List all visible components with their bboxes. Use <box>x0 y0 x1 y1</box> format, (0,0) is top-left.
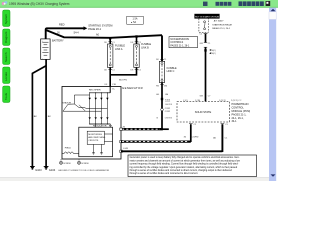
battery label <box>52 39 64 43</box>
rectifier top bus <box>89 87 110 94</box>
regulator box <box>79 127 113 157</box>
solid state top pin labels <box>183 100 241 102</box>
wire battery to fusible link bus <box>47 30 163 38</box>
svg-text:System: System <box>4 13 8 24</box>
svg-text:OG R B: OG R B <box>165 104 173 106</box>
svg-text:C1B: C1B <box>112 84 117 86</box>
fusible link C pin labels top <box>156 59 167 61</box>
fusible link C label <box>167 67 177 73</box>
app logo <box>2 1 8 6</box>
non emissions controls box <box>169 37 198 48</box>
left sidebar tab 5 <box>3 86 10 103</box>
ground wire labels <box>34 116 51 118</box>
svg-text:C3/92: C3/92 <box>165 108 171 110</box>
ground G104 <box>44 166 56 171</box>
fusible link B label <box>141 43 151 49</box>
svg-text:LINK B: LINK B <box>141 46 149 49</box>
svg-text:CIRCUITS: CIRCUITS <box>88 140 98 142</box>
wire labels along fusible link C feed <box>156 94 172 106</box>
description note box <box>128 155 257 177</box>
scrollbar track <box>269 8 276 181</box>
svg-text:GM: GM <box>165 94 169 96</box>
svg-text:1 (3C 2): 1 (3C 2) <box>219 100 226 102</box>
bus labels <box>57 32 100 37</box>
svg-text:1 C80: 1 C80 <box>195 100 200 102</box>
svg-text:SOLID STATE: SOLID STATE <box>195 110 212 114</box>
scrollbar thumb <box>269 12 276 20</box>
stator winding <box>63 95 107 111</box>
wire label BLK/PN <box>119 80 127 82</box>
bottom edge strip <box>0 178 269 181</box>
diode column 4 <box>106 93 108 124</box>
wire label RED <box>59 23 65 27</box>
svg-text:Tools: Tools <box>4 92 8 100</box>
regulator inner circuits box <box>87 131 105 144</box>
rectifier bottom bus <box>89 123 110 124</box>
svg-text:S(C): S(C) <box>212 53 216 55</box>
rectifier label <box>89 90 101 92</box>
svg-text:34-1: 34-1 <box>232 120 238 123</box>
label starting system page <box>88 24 112 32</box>
rectifier ground <box>109 124 112 127</box>
fusible link A pin labels top <box>104 42 115 44</box>
fuse panel bottom connector <box>199 34 207 36</box>
svg-text:LINK C: LINK C <box>167 70 175 73</box>
title bar <box>0 0 278 8</box>
svg-text:C (C): C (C) <box>183 100 188 102</box>
svg-text:A/T 30A Y: A/T 30A Y <box>214 20 224 23</box>
generator label <box>122 86 143 90</box>
stator label <box>62 102 71 105</box>
striped wire label <box>123 127 126 129</box>
svg-text:PAGE 20-1: PAGE 20-1 <box>88 27 101 31</box>
fusible link A connector ticks <box>108 42 112 70</box>
regulator label <box>93 124 107 127</box>
field winding <box>62 152 79 154</box>
inline connector on ignition feed <box>200 43 212 48</box>
wire F labels <box>123 137 228 150</box>
solid state module dashed box <box>177 102 230 123</box>
wire ignition feed down <box>205 34 207 102</box>
diode column 1 <box>89 93 91 124</box>
fusible link C pin labels bottom <box>156 85 167 87</box>
svg-text:SCREW: SCREW <box>81 163 89 165</box>
fusible link A label <box>115 45 125 51</box>
fusible link B <box>134 44 139 67</box>
svg-text:G103: G103 <box>35 168 42 172</box>
fuse panel dashed box <box>199 19 209 33</box>
solid state bottom connectors <box>189 123 229 126</box>
svg-text:RECTIFIER: RECTIFIER <box>89 90 101 92</box>
svg-text:Diagram: Diagram <box>4 31 8 43</box>
svg-text:current frequency through fiel: current frequency through field winding.… <box>130 163 239 166</box>
svg-text:● 5A: ● 5A <box>131 21 136 24</box>
fusible link C <box>159 61 164 82</box>
svg-text:HG: HG <box>156 94 159 96</box>
svg-text:G104: G104 <box>49 168 56 172</box>
svg-text:GROUND P SCREW TO FULL FIELD G: GROUND P SCREW TO FULL FIELD GENERATOR <box>58 169 109 172</box>
svg-text:CONTROLS: CONTROLS <box>170 42 183 44</box>
striped wire I-circuit to solid state <box>121 124 191 142</box>
wire fusible link C down <box>161 82 163 129</box>
screw ground 1 <box>60 159 71 165</box>
svg-text:HOT IN START OR RUN: HOT IN START OR RUN <box>195 15 220 18</box>
fuse legend box <box>127 16 143 24</box>
svg-text:MONITORING: MONITORING <box>88 134 102 136</box>
wire battery negative split <box>32 59 46 166</box>
svg-text:Locate: Locate <box>4 72 8 81</box>
wire fusible link B join to A <box>110 67 136 74</box>
left sidebar tab 1 <box>3 10 10 27</box>
svg-text:AND SWITCHING: AND SWITCHING <box>88 136 105 139</box>
fusible link B pin labels top <box>131 42 142 44</box>
fusible link B wire top <box>136 37 138 44</box>
svg-text:LG/R: LG/R <box>123 148 129 150</box>
wire battery positive to starting system (top bus) <box>46 26 88 39</box>
generator B+ pin labels <box>105 84 117 90</box>
svg-text:LG/RD: LG/RD <box>192 137 199 139</box>
svg-text:GM: GM <box>164 85 168 87</box>
splice on ignition feed <box>204 49 216 55</box>
fusible link C connector ticks <box>160 59 164 84</box>
svg-text:erator creates and channels an: erator creates and channels an amount of… <box>130 159 241 162</box>
scrollbar up arrow <box>271 9 276 11</box>
svg-text:PAGES 21-1, 24-1: PAGES 21-1, 24-1 <box>212 27 231 30</box>
ignition feed lower labels <box>200 96 212 98</box>
fuse panel side labels <box>212 20 232 31</box>
svg-text:OG R B: OG R B <box>165 117 173 119</box>
svg-text:S100: S100 <box>165 99 171 101</box>
generator terminal A <box>120 128 122 130</box>
hot in start or run header <box>194 14 219 19</box>
svg-text:Generator power is used to kee: Generator power is used to keep battery … <box>130 156 240 159</box>
ground G103 <box>30 166 42 171</box>
svg-text:BATTERY: BATTERY <box>52 39 64 43</box>
svg-text:SCREW: SCREW <box>63 163 71 165</box>
splice S100 <box>161 98 171 102</box>
wire F-circuit black to solid state <box>121 124 222 152</box>
svg-text:Search: Search <box>4 52 8 62</box>
node bus junction B <box>135 35 137 37</box>
svg-text:GM: GM <box>200 96 204 98</box>
svg-text:C3/92: C3/92 <box>165 111 171 113</box>
field label <box>65 148 72 150</box>
connector C392 <box>161 108 171 113</box>
svg-text:through a series of rectifier: through a series of rectifier diodes and… <box>130 169 233 172</box>
svg-text:GM: GM <box>200 43 204 45</box>
svg-text:GENERATOR: GENERATOR <box>122 86 143 90</box>
svg-text:S(C): S(C) <box>212 50 216 52</box>
diode column 3 <box>100 93 102 124</box>
left sidebar tab 4 <box>3 67 10 84</box>
powertrain control module label <box>232 103 251 123</box>
fuse symbol <box>204 21 206 30</box>
svg-text:LINK A: LINK A <box>115 48 123 51</box>
svg-text:S4-4: S4-4 <box>74 32 80 35</box>
fusible link B connector ticks <box>135 42 139 70</box>
left sidebar tab 2 <box>3 29 10 46</box>
toolbar icon cluster 1 <box>216 2 232 6</box>
striped wire A-circuit to generator <box>121 128 163 130</box>
node bus junction A <box>109 37 111 39</box>
svg-text:ing controlled by the voltage: ing controlled by the voltage regulator.… <box>130 166 238 169</box>
wire bus corner down to fusible link C <box>161 35 163 61</box>
generator ground note <box>58 169 109 172</box>
wire corner stub to other page <box>162 128 169 130</box>
svg-text:BLK/PN: BLK/PN <box>119 80 127 82</box>
left sidebar tab 3 <box>3 48 10 65</box>
svg-text:PAGES 21-1, 26-1: PAGES 21-1, 26-1 <box>170 44 190 47</box>
fusible link A wire top <box>109 38 111 44</box>
generator terminal I <box>120 140 122 142</box>
scrollbar down arrow <box>271 174 276 176</box>
svg-text:2 (3C 2) C 2: 2 (3C 2) C 2 <box>231 100 241 102</box>
svg-text:STARTING SYSTEM: STARTING SYSTEM <box>88 24 112 28</box>
generator terminal F <box>120 150 122 152</box>
toolbar icon single <box>203 2 208 6</box>
wire labels lower <box>157 117 173 119</box>
svg-text:through a series of rectifier: through a series of rectifier diodes and… <box>130 172 199 175</box>
diode column 2 <box>95 93 97 124</box>
screw ground 2 <box>78 159 89 165</box>
generator box <box>62 87 121 160</box>
svg-text:START/RUN RELAY: START/RUN RELAY <box>212 23 232 26</box>
svg-text:NON EMISSIONS: NON EMISSIONS <box>170 39 189 41</box>
svg-text:RED: RED <box>59 23 65 27</box>
battery BAT <box>41 39 50 60</box>
striped wire labels <box>184 137 199 139</box>
toolbar icon cluster 2 <box>239 1 271 6</box>
wire fusible link A to generator B+ <box>109 67 111 86</box>
svg-text:FIELD: FIELD <box>65 148 72 150</box>
svg-text:1995 Windstar (B) CH3V Chargin: 1995 Windstar (B) CH3V Charging System <box>9 2 70 6</box>
fusible link A <box>108 44 113 67</box>
regulator internal stubs and grounds <box>92 124 112 155</box>
title text <box>9 2 70 6</box>
fusible link A pin labels bottom <box>104 69 115 71</box>
svg-text:HG: HG <box>156 85 159 87</box>
fusible link B pin labels bottom <box>131 69 142 71</box>
